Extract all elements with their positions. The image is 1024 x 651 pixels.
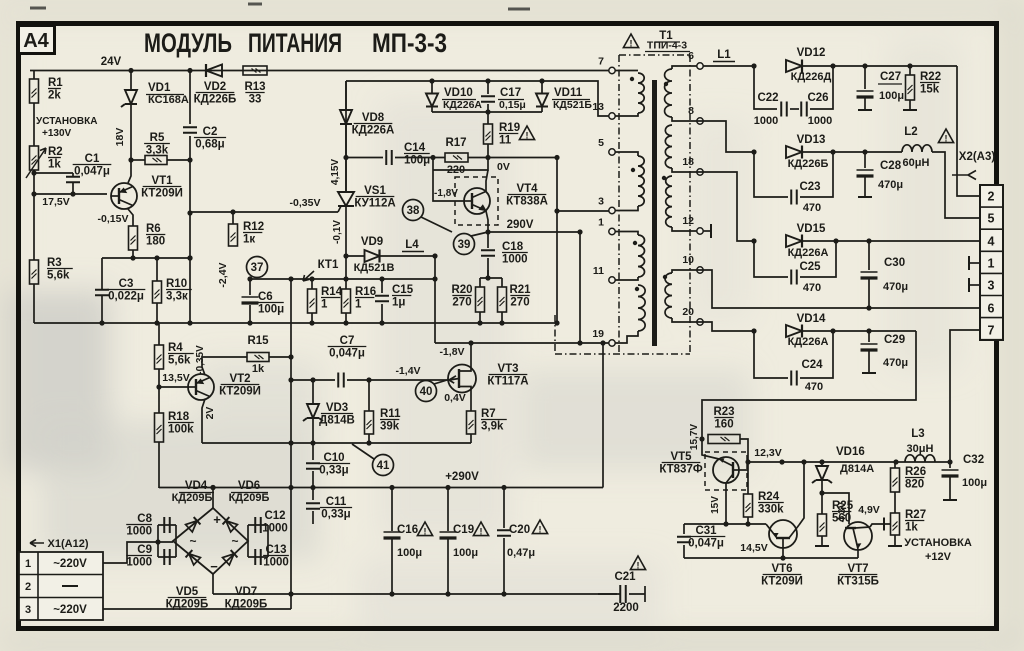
- svg-text:-0,15V: -0,15V: [98, 213, 129, 225]
- resistor R22: [906, 75, 915, 100]
- svg-text:VT4: VT4: [516, 183, 538, 195]
- warning triangle: [519, 126, 534, 140]
- capacitor C7: [338, 373, 344, 388]
- capacitor C29: [861, 343, 878, 345]
- wire: [159, 487, 213, 489]
- svg-text:13: 13: [592, 101, 604, 113]
- winding 18-12: [666, 176, 672, 227]
- capacitor C28: [857, 169, 874, 171]
- svg-text:0,15μ: 0,15μ: [499, 99, 526, 111]
- svg-text:12: 12: [682, 215, 694, 227]
- svg-text:1000: 1000: [263, 557, 289, 569]
- junction: [429, 78, 434, 83]
- svg-text:VD13: VD13: [797, 134, 826, 146]
- svg-text:4,9V: 4,9V: [858, 504, 880, 516]
- capacitor C20: [497, 530, 511, 536]
- svg-text:0,4V: 0,4V: [444, 392, 466, 404]
- svg-text:C6: C6: [258, 291, 273, 303]
- wire: [790, 108, 799, 110]
- svg-text:C18: C18: [502, 241, 524, 253]
- wire: [487, 258, 489, 278]
- svg-text:4: 4: [988, 235, 995, 249]
- svg-text:15,7V: 15,7V: [689, 424, 700, 450]
- diode VD13: [786, 146, 802, 158]
- svg-text:3: 3: [598, 196, 604, 208]
- wire: [248, 524, 268, 526]
- svg-text:1: 1: [598, 217, 604, 229]
- svg-text:100μ: 100μ: [258, 304, 284, 316]
- junction: [187, 255, 192, 260]
- junction: [130, 255, 135, 260]
- wire: [248, 556, 268, 558]
- capacitor C9: [164, 549, 170, 565]
- junction: [751, 328, 756, 333]
- X2 pin1 terminator: [969, 262, 980, 264]
- wire: [868, 241, 870, 270]
- wire: [782, 538, 784, 558]
- svg-text:C1: C1: [85, 153, 100, 165]
- svg-text:!: !: [480, 526, 483, 536]
- wire: [156, 258, 158, 281]
- wire VT4 base: [433, 158, 488, 171]
- junction: [468, 340, 473, 345]
- wire: [894, 535, 896, 546]
- junction: [288, 354, 293, 359]
- test point 39: [454, 234, 475, 255]
- svg-text:МОДУЛЬ: МОДУЛЬ: [144, 28, 232, 58]
- resistor R23: [708, 435, 740, 444]
- capacitor C3: [95, 290, 109, 296]
- svg-text:2k: 2k: [48, 90, 61, 102]
- svg-text:19: 19: [592, 328, 604, 340]
- svg-text:180: 180: [146, 236, 165, 248]
- wire: [864, 152, 866, 168]
- wire: [345, 279, 347, 289]
- inductor L2: [902, 145, 932, 152]
- wire pin19 stub: [615, 331, 638, 343]
- svg-text:1000: 1000: [126, 526, 152, 538]
- junction: [432, 253, 437, 258]
- svg-text:470μ: 470μ: [883, 357, 908, 369]
- wire: [470, 434, 472, 443]
- svg-text:R16: R16: [355, 286, 376, 298]
- wire: [487, 144, 489, 158]
- svg-text:VD12: VD12: [797, 47, 826, 59]
- pin 8: [697, 118, 703, 124]
- wire: [158, 524, 176, 526]
- junction: [745, 459, 750, 464]
- transistor VT1 КТ209И: [111, 183, 137, 209]
- wire: [156, 303, 158, 323]
- svg-text:C16: C16: [397, 524, 418, 536]
- svg-text:КТ117А: КТ117А: [487, 376, 528, 388]
- warning triangle: [938, 129, 953, 143]
- winding polarity dots: [630, 77, 634, 81]
- svg-text:3: 3: [25, 604, 31, 616]
- svg-text:-0,35V: -0,35V: [290, 197, 321, 209]
- wire L2 to X2 pin5: [932, 152, 980, 218]
- svg-text:C8: C8: [137, 513, 152, 525]
- junction: [310, 440, 315, 445]
- pointer 40: [434, 380, 447, 384]
- wire: [703, 65, 754, 67]
- wire: [132, 250, 134, 258]
- capacitor C2: [183, 127, 197, 133]
- svg-text:L3: L3: [911, 428, 924, 440]
- wire: [249, 279, 251, 295]
- svg-text:Д814В: Д814В: [319, 415, 355, 427]
- wire: [821, 481, 823, 514]
- diode VD15: [786, 235, 802, 247]
- wire: [894, 492, 896, 513]
- wire: [435, 342, 580, 344]
- svg-text:C7: C7: [340, 335, 355, 347]
- wire: [102, 257, 190, 259]
- svg-text:470: 470: [803, 282, 821, 294]
- wire: [190, 211, 338, 213]
- svg-text:!: !: [637, 560, 640, 570]
- svg-text:4,3V: 4,3V: [837, 501, 848, 522]
- wire: [311, 313, 313, 323]
- svg-text:L2: L2: [904, 126, 917, 138]
- wire: [33, 71, 35, 80]
- capacitor C10: [306, 463, 320, 469]
- svg-text:-1,4V: -1,4V: [395, 365, 420, 377]
- svg-text:15V: 15V: [710, 496, 721, 514]
- svg-text:КД521Б: КД521Б: [553, 99, 592, 111]
- test point 37: [247, 257, 268, 278]
- resistor R26: [891, 468, 900, 492]
- svg-text:11: 11: [593, 265, 604, 277]
- inductor L3: [905, 455, 935, 462]
- diode VD5: [186, 550, 201, 565]
- svg-text:КУ112А: КУ112А: [354, 198, 395, 210]
- svg-text:1: 1: [321, 299, 328, 311]
- wire: [34, 322, 557, 324]
- svg-text:R1: R1: [48, 77, 63, 89]
- svg-text:C30: C30: [884, 257, 905, 269]
- wire: [291, 379, 335, 381]
- capacitor C21: [620, 585, 626, 603]
- capacitor C25: [791, 270, 797, 285]
- capacitor C22: [781, 102, 787, 117]
- svg-text:R18: R18: [168, 411, 190, 423]
- svg-text:C2: C2: [203, 126, 218, 138]
- diode VD8: [340, 110, 352, 124]
- wire emitter rail to bus: [556, 158, 558, 324]
- svg-text:X2(А3): X2(А3): [959, 151, 996, 163]
- wire: [312, 380, 314, 404]
- transistor VT4 КТ838А: [464, 188, 490, 214]
- transistor VT3 КТ117А: [448, 365, 476, 393]
- svg-text:VS1: VS1: [364, 185, 386, 197]
- svg-text:C26: C26: [807, 92, 828, 104]
- svg-text:330k: 330k: [758, 504, 784, 516]
- wire: [33, 170, 35, 260]
- svg-text:270: 270: [510, 297, 529, 309]
- transistor VT6 КТ209И: [769, 520, 797, 548]
- wire: [488, 231, 580, 233]
- svg-text:КД209Б: КД209Б: [172, 492, 213, 504]
- svg-text:1000: 1000: [126, 557, 152, 569]
- svg-text:0,33μ: 0,33μ: [319, 465, 348, 477]
- wire: [683, 524, 685, 534]
- wire pin3 stub: [615, 206, 638, 211]
- wire: [949, 477, 951, 500]
- svg-text:КД209Б: КД209Б: [229, 492, 270, 504]
- wire: [683, 545, 685, 558]
- wire: [821, 536, 823, 546]
- wire: [580, 342, 609, 344]
- winding 7-13: [638, 73, 644, 113]
- svg-text:R15: R15: [247, 335, 269, 347]
- wire: [868, 351, 870, 373]
- svg-text:КС168А: КС168А: [148, 94, 189, 106]
- wire: [345, 81, 347, 192]
- wire: [864, 177, 866, 197]
- wire: [868, 331, 870, 342]
- svg-text:КД226А: КД226А: [788, 247, 829, 259]
- svg-text:60μН: 60μН: [903, 157, 930, 169]
- svg-text:R13: R13: [244, 81, 265, 93]
- wire pin20 to VD14 row: [697, 322, 754, 331]
- pointer line 39: [471, 232, 488, 236]
- capacitor C19: [440, 531, 457, 533]
- svg-text:−: −: [210, 559, 218, 574]
- capacitor C27: [857, 90, 874, 92]
- winding 6-8: [665, 69, 672, 117]
- svg-text:КТ838А: КТ838А: [506, 196, 548, 208]
- zener VD16: [816, 466, 828, 480]
- wire pin5 stub: [615, 152, 638, 156]
- svg-text:2200: 2200: [613, 602, 639, 614]
- svg-text:C22: C22: [757, 92, 778, 104]
- svg-text:C28: C28: [880, 160, 902, 172]
- resistor R14: [308, 289, 317, 313]
- capacitor C15: [375, 296, 389, 302]
- wire VS1 to VD9: [343, 253, 348, 258]
- svg-text:6: 6: [688, 50, 694, 62]
- wire: [748, 461, 950, 463]
- wire: [347, 379, 449, 381]
- svg-text:R23: R23: [713, 406, 734, 418]
- svg-text:1k: 1k: [252, 363, 265, 375]
- diode VD11: [536, 94, 548, 107]
- wire: [501, 312, 503, 323]
- R2 wiper arrow: [26, 148, 46, 178]
- wire R20/R21 split: [479, 278, 481, 287]
- wire: [747, 517, 749, 524]
- svg-text:VT7: VT7: [847, 563, 868, 575]
- svg-text:18: 18: [682, 156, 694, 168]
- wire: [684, 523, 766, 525]
- pin 1: [609, 228, 615, 234]
- wire X2 pin7 to +12V out: [950, 330, 980, 462]
- pin 11: [609, 277, 615, 283]
- svg-text:+130V: +130V: [42, 128, 72, 139]
- svg-text:14,5V: 14,5V: [740, 542, 767, 554]
- wire: [250, 278, 435, 280]
- wire: [949, 462, 951, 468]
- junction: [485, 229, 490, 234]
- svg-text:1k: 1k: [905, 522, 918, 534]
- resistor R21: [498, 287, 507, 312]
- svg-text:VD15: VD15: [797, 223, 826, 235]
- wire: [431, 81, 433, 93]
- resistor R27: [891, 513, 900, 535]
- wire: [391, 488, 393, 532]
- wire: [30, 70, 609, 72]
- wire: [212, 488, 214, 509]
- svg-text:0,47μ: 0,47μ: [507, 547, 535, 559]
- wire: [267, 525, 269, 557]
- svg-text:820: 820: [905, 479, 924, 491]
- svg-text:5,6k: 5,6k: [168, 355, 191, 367]
- svg-text:~: ~: [189, 534, 196, 548]
- wire: [487, 270, 489, 278]
- wire VT6 collector to rail: [799, 462, 804, 525]
- winding 8-18: [665, 125, 672, 168]
- svg-text:R10: R10: [166, 278, 187, 290]
- svg-text:0,022μ: 0,022μ: [108, 291, 144, 303]
- capacitor C31: [677, 537, 691, 543]
- wire pin8 stub: [672, 117, 697, 121]
- wire: [598, 593, 617, 595]
- wire: [249, 305, 251, 323]
- wire: [725, 483, 727, 524]
- diode VD12: [786, 60, 802, 72]
- wire: [311, 279, 313, 289]
- svg-text:7: 7: [598, 56, 604, 68]
- resistor R5: [145, 156, 167, 165]
- svg-text:УСТАНОВКА: УСТАНОВКА: [904, 537, 972, 549]
- wire: [802, 65, 957, 67]
- wire: [579, 232, 581, 343]
- svg-text:20: 20: [682, 306, 694, 318]
- junction: [31, 170, 36, 175]
- wire: [158, 442, 160, 488]
- wire VT7 collector: [870, 524, 891, 527]
- test point 41: [373, 455, 394, 476]
- capacitor C13: [255, 549, 261, 565]
- svg-text:R27: R27: [905, 509, 926, 521]
- wire: [345, 313, 347, 323]
- wire: [130, 105, 132, 160]
- wire pin13 stub: [615, 113, 638, 116]
- svg-text:C15: C15: [392, 284, 414, 296]
- svg-text:ТПИ-4-3: ТПИ-4-3: [647, 40, 687, 52]
- svg-text:VD14: VD14: [797, 313, 826, 325]
- wire: [130, 71, 132, 90]
- svg-text:~220V: ~220V: [53, 558, 87, 570]
- svg-text:R26: R26: [905, 466, 926, 478]
- junction: [288, 485, 293, 490]
- wire pin6 stub: [672, 66, 697, 69]
- svg-text:24V: 24V: [101, 56, 122, 68]
- svg-text:L4: L4: [405, 239, 419, 251]
- junction: [485, 109, 490, 114]
- svg-text:11: 11: [499, 135, 512, 147]
- svg-text:VD7: VD7: [235, 586, 257, 598]
- junction: [751, 63, 756, 68]
- junction: [99, 320, 104, 325]
- wire: [158, 323, 160, 345]
- svg-text:VD11: VD11: [554, 87, 583, 99]
- wire: [247, 525, 249, 557]
- resistor R2 (adjust): [30, 146, 39, 170]
- svg-text:R5: R5: [150, 132, 165, 144]
- junction: [430, 155, 435, 160]
- wire: [480, 277, 502, 279]
- capacitor C8: [164, 517, 170, 533]
- resistor R16: [342, 289, 351, 313]
- svg-text:R22: R22: [920, 71, 941, 83]
- svg-text:УСТАНОВКА: УСТАНОВКА: [36, 116, 97, 127]
- wire: [864, 98, 866, 110]
- wire: [487, 232, 489, 248]
- wire: [290, 279, 292, 609]
- svg-text:37: 37: [251, 262, 264, 274]
- wire: [894, 462, 896, 468]
- capacitor C16: [384, 531, 401, 533]
- svg-text:3,3к: 3,3к: [166, 291, 188, 303]
- transistor VT2 КТ209И: [188, 374, 214, 400]
- wire: [391, 539, 393, 594]
- wire: [447, 488, 449, 532]
- wire VT1 emitter to VD1 node: [128, 160, 131, 183]
- wire: [158, 556, 176, 558]
- test point 38: [403, 200, 424, 221]
- wire VS1 cathode: [345, 206, 347, 279]
- wire VT5 emitter: [702, 439, 719, 459]
- svg-text:МП-3-3: МП-3-3: [372, 28, 447, 58]
- capacitor C18: [481, 250, 495, 256]
- resistor R3: [30, 260, 39, 284]
- svg-text:КД226А: КД226А: [352, 125, 395, 137]
- wire: [541, 106, 543, 112]
- svg-text:КТ837Ф: КТ837Ф: [659, 464, 703, 476]
- wire: [434, 256, 436, 343]
- wire: [381, 279, 383, 293]
- svg-text:17,5V: 17,5V: [42, 196, 69, 208]
- svg-text:C3: C3: [119, 278, 134, 290]
- pin 10: [697, 267, 703, 273]
- winding 5-3: [638, 156, 644, 206]
- svg-text:R7: R7: [481, 408, 496, 420]
- svg-text:C24: C24: [801, 359, 823, 371]
- wire R23 right to base node: [740, 439, 748, 462]
- svg-text:C21: C21: [614, 571, 636, 583]
- warning triangle: [532, 520, 547, 534]
- svg-text:0,047μ: 0,047μ: [329, 348, 365, 360]
- wire: [101, 258, 103, 289]
- C25 loop: [754, 241, 788, 277]
- svg-text:!: !: [630, 38, 633, 48]
- wire: [189, 71, 191, 125]
- C24 loop: [754, 331, 788, 378]
- svg-text:R11: R11: [380, 408, 401, 420]
- capacitor C23: [791, 190, 797, 205]
- pin 19: [609, 340, 615, 346]
- wire: [909, 66, 911, 75]
- svg-text:VT2: VT2: [229, 373, 250, 385]
- svg-text:2: 2: [988, 190, 995, 204]
- transistor VT7 КТ315Б: [844, 522, 872, 550]
- svg-text:39k: 39k: [380, 421, 400, 433]
- wire pin12 stub: [672, 227, 697, 231]
- resistor R10: [153, 281, 162, 303]
- svg-text:КД226А: КД226А: [788, 336, 829, 348]
